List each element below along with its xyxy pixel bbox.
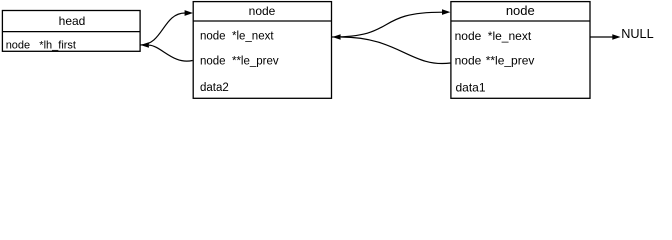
svg-text:head: head [59, 14, 86, 28]
head box [2, 11, 140, 52]
svg-text:data2: data2 [200, 82, 229, 94]
wire lh_first to node1 [140, 13, 185, 45]
svg-text:node**le_prev: node**le_prev [455, 54, 535, 68]
arrowhead to NULL [612, 34, 620, 40]
svg-text:node*lh_first: node*lh_first [6, 40, 76, 52]
svg-text:node*le_next: node*le_next [455, 29, 532, 43]
wire node1 le_next to node2 [332, 12, 443, 37]
arrowhead into node1 [185, 10, 193, 16]
wire node2 le_next to NULL [590, 36, 613, 38]
svg-text:node: node [506, 3, 535, 18]
node1 box [193, 2, 331, 99]
svg-text:node: node [249, 4, 276, 18]
arrowhead into node1 [332, 34, 340, 40]
arrowhead into node2 [442, 9, 450, 15]
svg-text:NULL: NULL [621, 27, 653, 41]
svg-text:data1: data1 [456, 80, 486, 94]
wire node2 le_prev to node1 [341, 37, 451, 64]
svg-text:node **le_prev: node **le_prev [200, 56, 279, 68]
svg-text:node *le_next: node *le_next [200, 30, 274, 42]
wire node1 le_prev to head [149, 45, 193, 61]
node2 box [451, 2, 590, 99]
arrowhead into head [140, 42, 149, 47]
